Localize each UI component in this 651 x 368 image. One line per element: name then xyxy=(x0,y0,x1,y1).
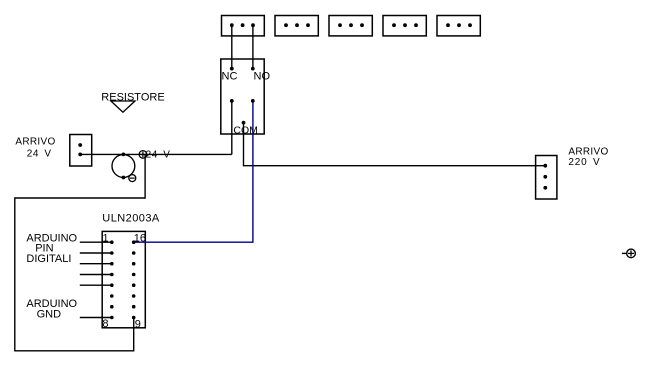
svg-text:GND: GND xyxy=(37,308,62,320)
svg-text:ARRIVO: ARRIVO xyxy=(568,147,608,158)
svg-text:220 V: 220 V xyxy=(568,157,600,168)
svg-text:9: 9 xyxy=(135,319,141,331)
svg-text:NC: NC xyxy=(222,71,238,83)
svg-text:RESISTORE: RESISTORE xyxy=(101,92,164,104)
svg-text:8: 8 xyxy=(102,318,108,330)
svg-text:24 V: 24 V xyxy=(146,149,171,160)
svg-text:1: 1 xyxy=(103,233,109,245)
svg-text:16: 16 xyxy=(134,233,146,245)
svg-text:ARRIVO: ARRIVO xyxy=(15,137,55,148)
svg-text:COM: COM xyxy=(233,124,258,136)
svg-text:24 V: 24 V xyxy=(27,148,52,159)
svg-text:DIGITALI: DIGITALI xyxy=(26,253,71,265)
svg-text:NO: NO xyxy=(254,71,271,83)
svg-text:ULN2003A: ULN2003A xyxy=(102,212,160,224)
